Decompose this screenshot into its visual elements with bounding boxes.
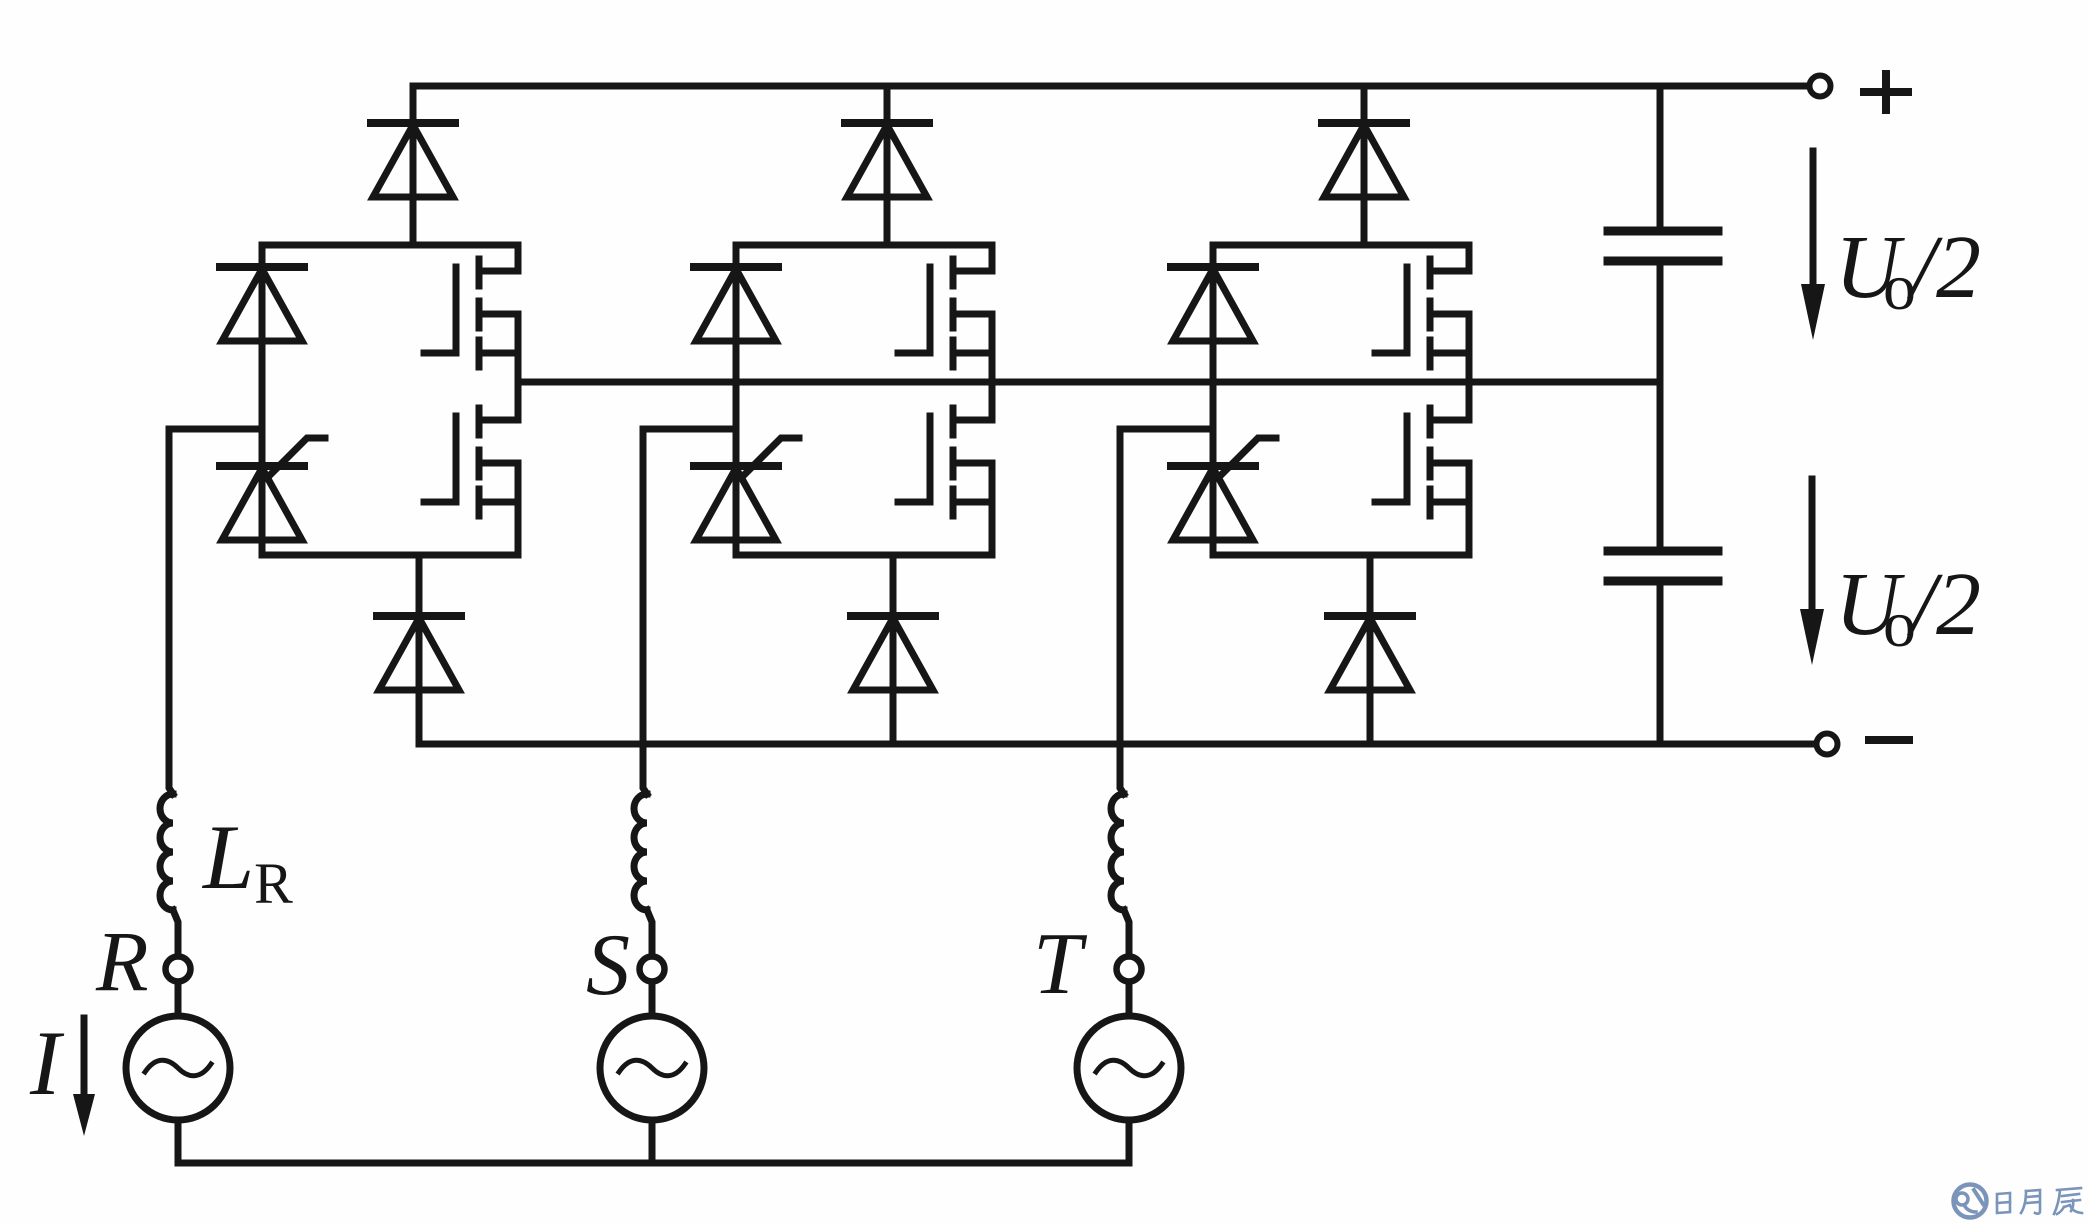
wire terminal T to source [1126,984,1133,1016]
wire top diode leg phase S [884,86,891,245]
label T [1033,916,1088,1013]
wire box top edge phase T [1213,242,1469,249]
wire phase R input [169,429,262,794]
wire bottom return bus [178,1160,1126,1167]
diode D11 (top, phase R) [371,123,455,197]
wire Q31 source to midpoint [1466,314,1473,382]
diode D33 (bottom, phase T) [1328,616,1412,690]
svg-text:Uo/2: Uo/2 [1835,218,1981,324]
diode D32 (box left, phase T) [1171,267,1255,341]
svg-text:S: S [586,917,630,1014]
terminal R [166,957,191,982]
label Uo/2 lower [1835,555,1981,661]
wire terminal S to source [649,984,656,1016]
MOSFET Q32 (lower, phase T) [1375,382,1469,516]
wire box left branch phase S [733,245,740,555]
diode D22 (box left, phase S) [694,267,778,341]
wire box bottom edge phase R [262,552,518,559]
AC source G3 (phase T) [1077,1016,1181,1120]
wire box bottom edge phase S [736,552,992,559]
label I [29,1012,65,1114]
label - [1869,736,1909,744]
AC source G1 (phase R) [126,1016,230,1120]
wire box left branch phase T [1210,245,1217,555]
diode D21 (top, phase S) [845,123,929,197]
svg-text:Uo/2: Uo/2 [1835,555,1981,661]
wire source S to return bus [649,1120,656,1163]
arrow Uo/2 lower [1800,479,1824,665]
label L_R [201,806,293,916]
terminal S [640,957,665,982]
svg-text:R: R [95,913,149,1009]
capacitor C2 (lower) [1608,551,1718,581]
wire source T to return bus [1126,1120,1133,1163]
wire terminal R to source [175,984,182,1016]
label R [95,913,149,1009]
diode D23 (bottom, phase S) [851,616,935,690]
wire box top edge phase S [736,242,992,249]
MOSFET Q21 (upper, phase S) [898,245,992,367]
wire source R to return bus [175,1120,182,1163]
wire box left branch phase R [259,245,266,555]
thyristor V3 (phase T) [1171,438,1276,540]
wire top rail (+ bus) [413,83,1807,90]
wire top diode leg phase R [410,86,417,245]
label Uo/2 upper [1835,218,1981,324]
label + [1864,74,1908,110]
wire phase T input [1120,429,1213,794]
thyristor V1 (phase R) [220,438,325,540]
wire + bus to C1 [1657,86,1664,227]
wire Q12 source to box bottom [515,463,522,555]
wire inductor to terminal T [1124,910,1129,952]
arrow I (input current) [73,1018,95,1136]
terminal T [1117,957,1142,982]
wire phase S input [643,429,736,794]
wire box bottom edge phase T [1213,552,1469,559]
label S [586,917,630,1014]
wire Q32 source to box bottom [1466,463,1473,555]
MOSFET Q12 (lower, phase R) [424,382,518,516]
wire Q11 source to midpoint [515,314,522,382]
wire inductor to terminal R [173,910,178,952]
wire bottom diode leg phase T [1367,555,1374,744]
logo watermark (ri-yue-chen) [1954,1185,2083,1218]
terminal + (positive output) [1810,76,1831,97]
arrow Uo/2 upper [1801,151,1825,340]
wire Q21 source to midpoint [989,314,996,382]
diode D12 (box left, phase R) [220,267,304,341]
wire C2 to - bus [1657,585,1664,744]
inductor LT [1111,794,1124,910]
wire Q22 source to box bottom [989,463,996,555]
terminal - (negative output) [1817,734,1838,755]
wire bottom rail (- bus) [419,741,1814,748]
svg-text:I: I [29,1012,65,1114]
wire bottom diode leg phase S [890,555,897,744]
thyristor V2 (phase S) [694,438,799,540]
diode D31 (top, phase T) [1322,123,1406,197]
wire midpoint rail [518,379,1660,386]
MOSFET Q22 (lower, phase S) [898,382,992,516]
wire top diode leg phase T [1361,86,1368,245]
wire bottom diode leg phase R [416,555,423,744]
wire inductor to terminal S [647,910,652,952]
wire box top edge phase R [262,242,518,249]
wire C1 to midpoint [1657,265,1664,547]
inductor LR (L_R) [160,794,173,910]
inductor LS [634,794,647,910]
MOSFET Q11 (upper, phase R) [424,245,518,367]
AC source G2 (phase S) [600,1016,704,1120]
svg-text:LR: LR [201,806,293,916]
diode D13 (bottom, phase R) [377,616,461,690]
capacitor C1 (upper) [1608,231,1718,261]
MOSFET Q31 (upper, phase T) [1375,245,1469,367]
svg-text:T: T [1033,916,1088,1013]
